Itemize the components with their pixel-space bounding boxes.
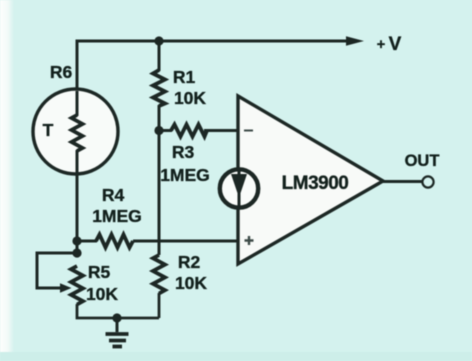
thermistor R6 body circle bbox=[33, 89, 118, 174]
node junction dot wiper branch bbox=[72, 248, 81, 257]
wire R1 branch vertical x=159 bbox=[158, 41, 161, 255]
output terminal circle bbox=[422, 176, 433, 187]
resistor R1 zigzag bbox=[153, 70, 165, 106]
node junction dot left rail / R4 bbox=[72, 236, 81, 245]
svg-text:+: + bbox=[377, 37, 385, 53]
label R3 bbox=[172, 142, 195, 162]
svg-text:R3: R3 bbox=[172, 142, 195, 162]
wire potentiometer wiper loop bbox=[37, 253, 77, 288]
+V label bbox=[377, 34, 402, 55]
+V supply arrow bbox=[346, 36, 364, 46]
svg-text:R1: R1 bbox=[173, 67, 196, 87]
label R1 bbox=[173, 67, 196, 87]
svg-text:R6: R6 bbox=[50, 62, 73, 82]
svg-text:V: V bbox=[389, 34, 402, 55]
node junction dot top rail / R1 bbox=[154, 36, 163, 45]
value 1MEG (R3) bbox=[160, 165, 210, 185]
label T inside thermistor bbox=[43, 120, 54, 140]
wire R2 bottom lead bbox=[158, 293, 161, 318]
value 10K (R5) bbox=[86, 284, 118, 304]
op-amp U1 triangle bbox=[238, 96, 383, 264]
svg-text:R5: R5 bbox=[88, 262, 111, 282]
svg-text:1MEG: 1MEG bbox=[92, 206, 142, 226]
resistor R2 zigzag bbox=[153, 255, 165, 294]
svg-text:1MEG: 1MEG bbox=[160, 165, 210, 185]
label R5 bbox=[88, 262, 111, 282]
svg-text:10K: 10K bbox=[86, 284, 118, 304]
svg-text:OUT: OUT bbox=[405, 152, 440, 170]
current source symbol on op-amp edge bbox=[220, 169, 258, 207]
wire R5 bottom lead and bottom rail bbox=[77, 304, 159, 318]
svg-text:T: T bbox=[43, 120, 54, 140]
label LM3900 bbox=[282, 173, 349, 194]
svg-text:10K: 10K bbox=[175, 273, 207, 293]
label R2 bbox=[178, 252, 201, 272]
label OUT bbox=[405, 152, 440, 170]
node junction dot R1/R3 bbox=[154, 126, 163, 135]
op-amp plus input sign bbox=[245, 236, 254, 245]
node junction dot ground bbox=[112, 313, 121, 322]
resistor R4 zigzag bbox=[96, 235, 133, 248]
wire top rail from thermistor to arrow bbox=[77, 41, 349, 115]
wire through thermistor bbox=[76, 91, 79, 255]
wire minus-input from junction to op-amp bbox=[159, 129, 238, 132]
value 1MEG (R4) bbox=[92, 206, 142, 226]
label R4 bbox=[102, 185, 125, 205]
thermistor zigzag element bbox=[72, 115, 83, 151]
wire plus-input row (R4 to op-amp) bbox=[77, 240, 238, 243]
ground bbox=[106, 318, 129, 347]
svg-text:R2: R2 bbox=[178, 252, 201, 272]
value 10K (R1) bbox=[174, 88, 206, 108]
resistor R3 zigzag bbox=[171, 125, 207, 137]
svg-text:LM3900: LM3900 bbox=[282, 173, 349, 194]
label R6 bbox=[50, 62, 73, 82]
wiper arrowhead bbox=[60, 283, 72, 293]
resistor R5 zigzag (potentiometer) bbox=[71, 266, 83, 305]
svg-text:10K: 10K bbox=[174, 88, 206, 108]
op-amp minus input sign bbox=[244, 130, 253, 132]
wire output bbox=[383, 180, 422, 183]
svg-text:R4: R4 bbox=[102, 185, 125, 205]
value 10K (R2) bbox=[175, 273, 207, 293]
